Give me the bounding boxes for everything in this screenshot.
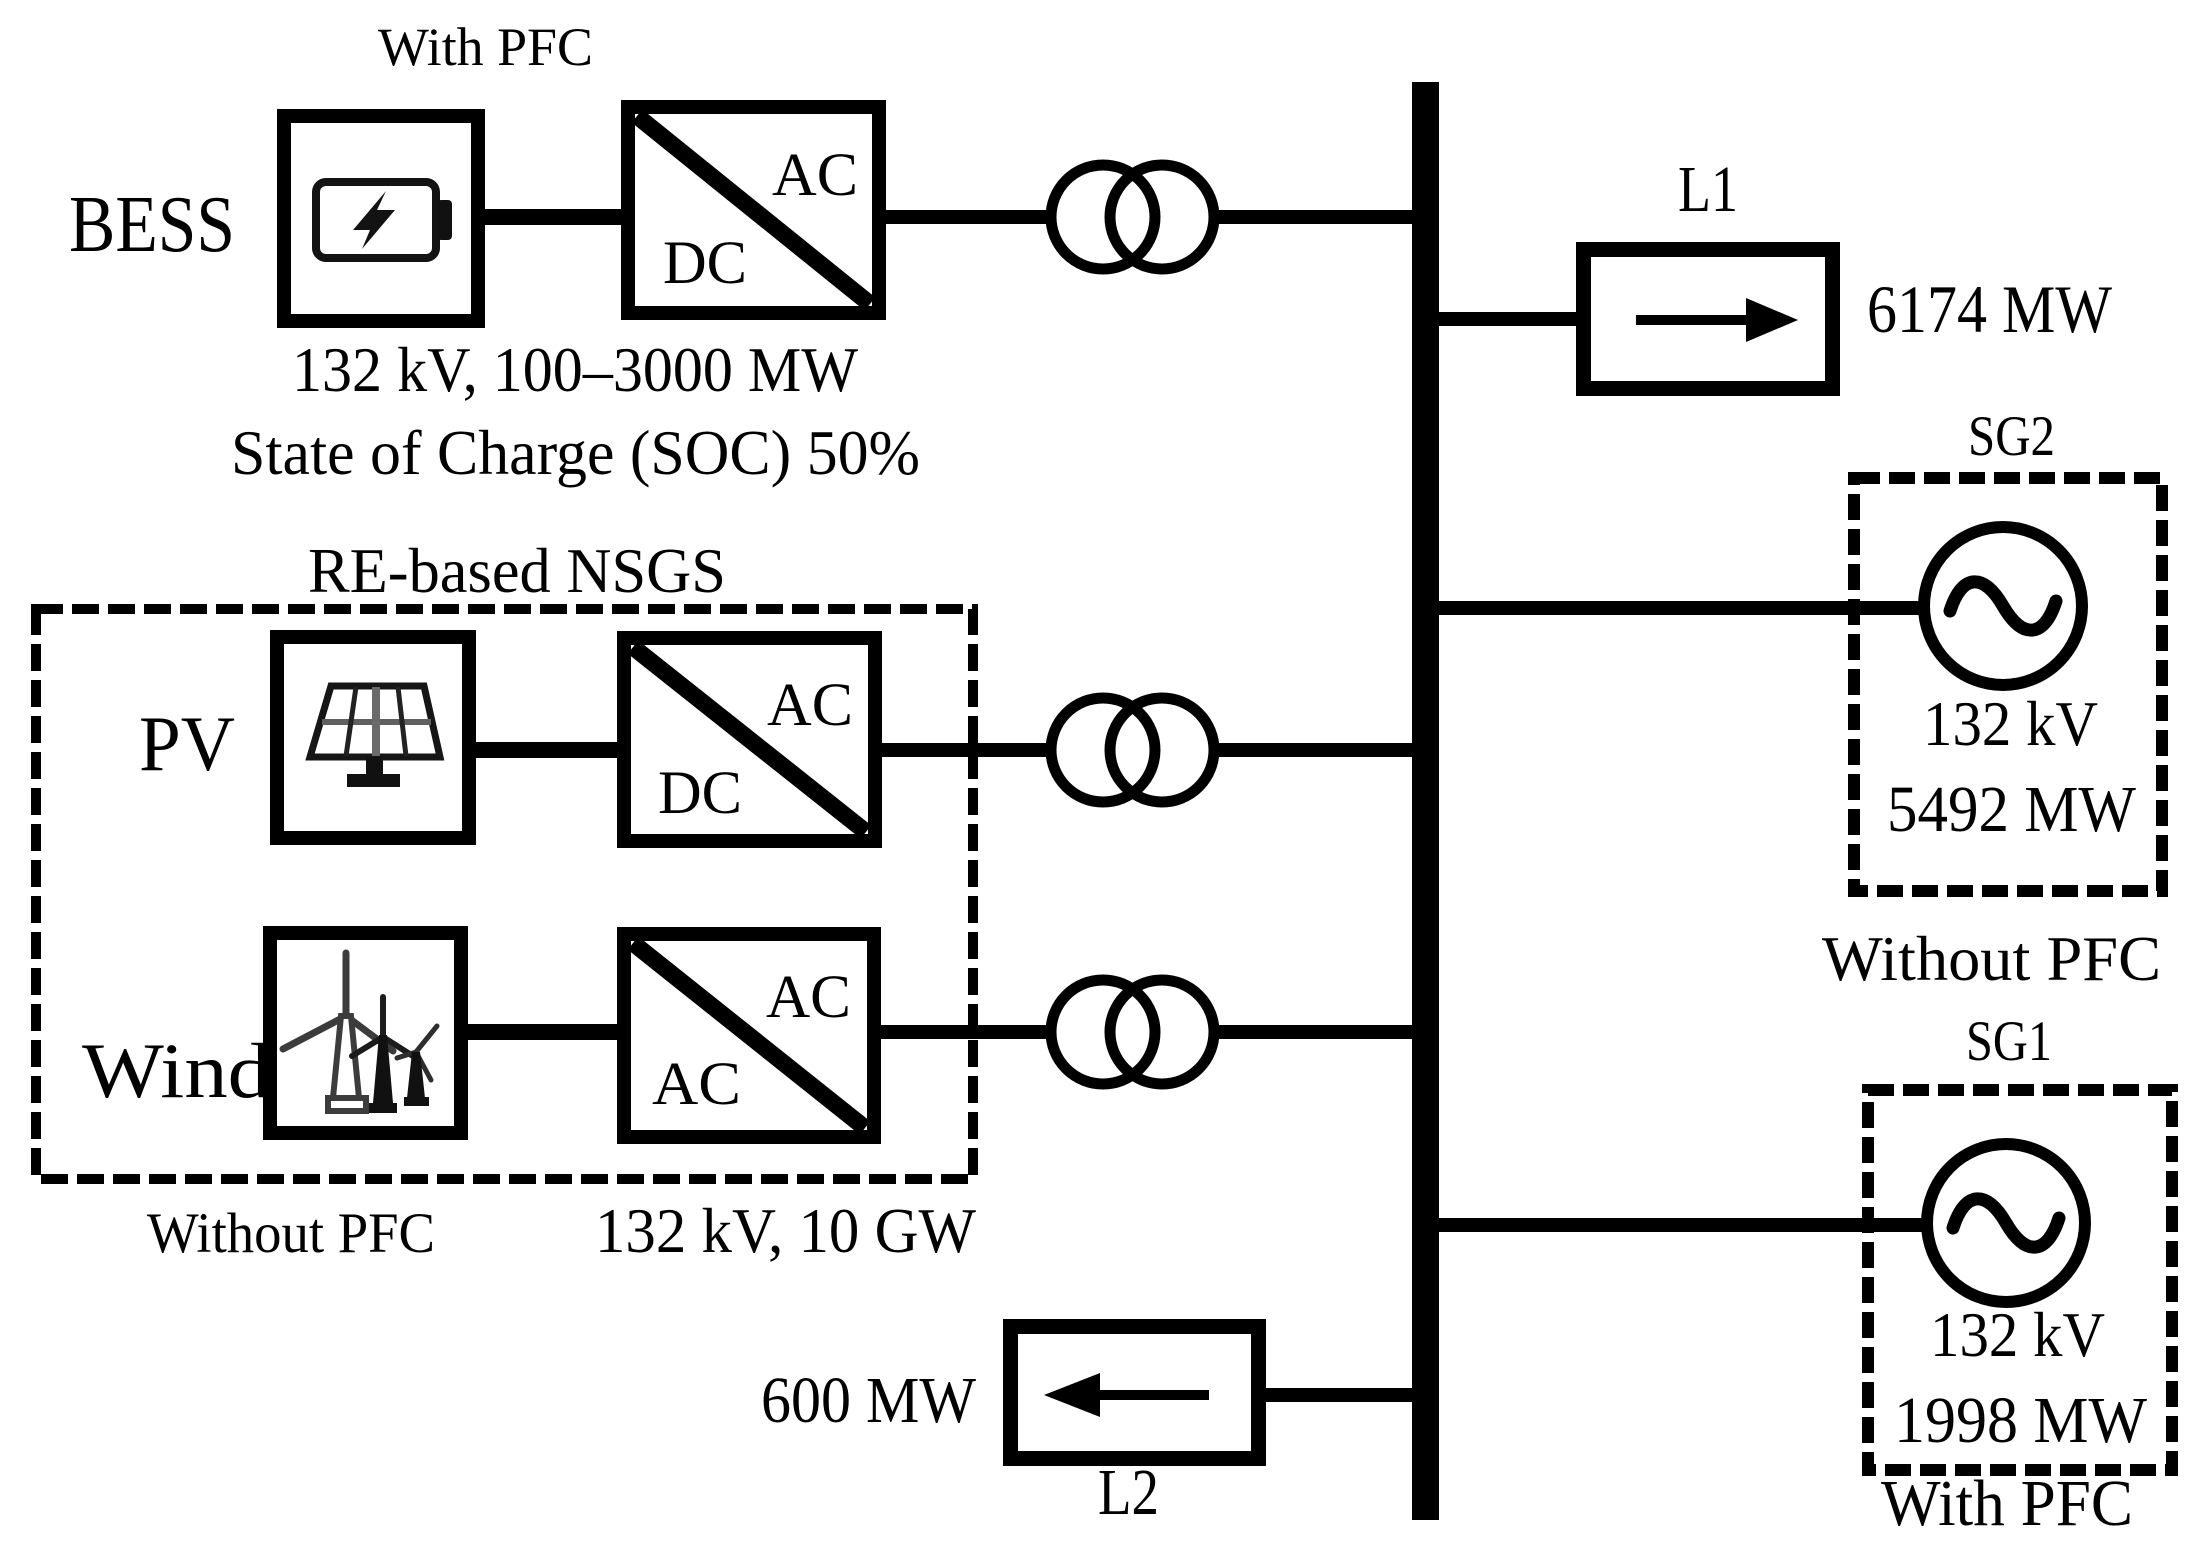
transformer T3 <box>1051 980 1214 1084</box>
generator SG1 dashed box <box>1868 1090 2172 1470</box>
PV source box <box>277 637 469 838</box>
svg-text:DC: DC <box>658 760 742 827</box>
solar panel icon <box>310 686 440 787</box>
converter U3 diagonal <box>633 943 865 1128</box>
load L1 arrow <box>1636 298 1798 342</box>
generator SG1 symbol <box>1927 1144 2085 1302</box>
BESS source box <box>284 116 478 321</box>
Wind source box <box>270 933 461 1133</box>
svg-text:State of Charge (SOC) 50%: State of Charge (SOC) 50% <box>231 417 920 488</box>
svg-text:AC: AC <box>767 672 853 739</box>
RE-based NSGS dashed group box <box>36 609 973 1179</box>
svg-text:With PFC: With PFC <box>378 17 593 77</box>
converter U2 (DC/AC) box <box>624 638 875 841</box>
wire converter U3 to busbar through transformer T3 <box>875 1025 1412 1039</box>
svg-text:AC: AC <box>772 142 858 209</box>
svg-text:132 kV, 100–3000 MW: 132 kV, 100–3000 MW <box>292 334 859 405</box>
converter U2 diagonal <box>633 647 866 832</box>
svg-text:AC: AC <box>766 964 851 1031</box>
svg-text:L2: L2 <box>1098 1456 1159 1529</box>
load L2 box <box>1011 1327 1259 1459</box>
converter U3 (AC/AC) box <box>624 934 874 1137</box>
load L2 arrow <box>1044 1373 1209 1417</box>
svg-text:1998 MW: 1998 MW <box>1894 1384 2148 1457</box>
svg-text:BESS: BESS <box>69 181 235 269</box>
generator SG2 symbol <box>1924 527 2082 685</box>
svg-text:RE-based NSGS: RE-based NSGS <box>308 535 726 606</box>
wire busbar to generator SG1 <box>1439 1218 1943 1232</box>
svg-text:132 kV, 10 GW: 132 kV, 10 GW <box>595 1196 977 1266</box>
svg-text:132 kV: 132 kV <box>1930 1300 2105 1370</box>
bus bar (main vertical busbar) <box>1412 82 1439 1520</box>
svg-text:With PFC: With PFC <box>1881 1467 2133 1540</box>
svg-text:SG2: SG2 <box>1968 405 2055 468</box>
wire busbar to load L1 <box>1439 312 1580 326</box>
wind turbines icon <box>283 953 437 1113</box>
battery icon <box>316 182 452 258</box>
svg-text:6174 MW: 6174 MW <box>1867 271 2113 347</box>
load L1 box <box>1584 250 1833 389</box>
transformer T1 <box>1051 165 1214 269</box>
wire BESS box to converter U1 <box>480 209 630 225</box>
wire busbar to generator SG2 <box>1439 601 1940 615</box>
svg-text:600 MW: 600 MW <box>761 1364 977 1437</box>
wire load L2 to busbar <box>1262 1388 1412 1402</box>
svg-text:Without PFC: Without PFC <box>1822 923 2161 994</box>
svg-text:132 kV: 132 kV <box>1923 689 2098 759</box>
svg-text:5492 MW: 5492 MW <box>1887 773 2137 846</box>
svg-text:PV: PV <box>139 700 235 787</box>
converter U1 (DC/AC) box <box>628 107 879 313</box>
svg-text:Without PFC: Without PFC <box>147 1202 435 1265</box>
transformer T2 <box>1051 698 1214 802</box>
converter U1 diagonal <box>637 116 870 304</box>
svg-text:DC: DC <box>663 230 747 297</box>
wire converter U2 to busbar through transformer T2 <box>876 743 1412 757</box>
svg-text:SG1: SG1 <box>1966 1010 2052 1073</box>
svg-text:Wind: Wind <box>82 1027 271 1114</box>
svg-text:AC: AC <box>652 1051 741 1118</box>
svg-text:L1: L1 <box>1678 153 1738 226</box>
wire Wind box to converter U3 <box>462 1024 625 1040</box>
generator SG2 dashed box <box>1854 478 2162 891</box>
wire PV box to converter U2 <box>470 742 625 758</box>
wire converter U1 to busbar through transformer T1 <box>880 210 1412 224</box>
